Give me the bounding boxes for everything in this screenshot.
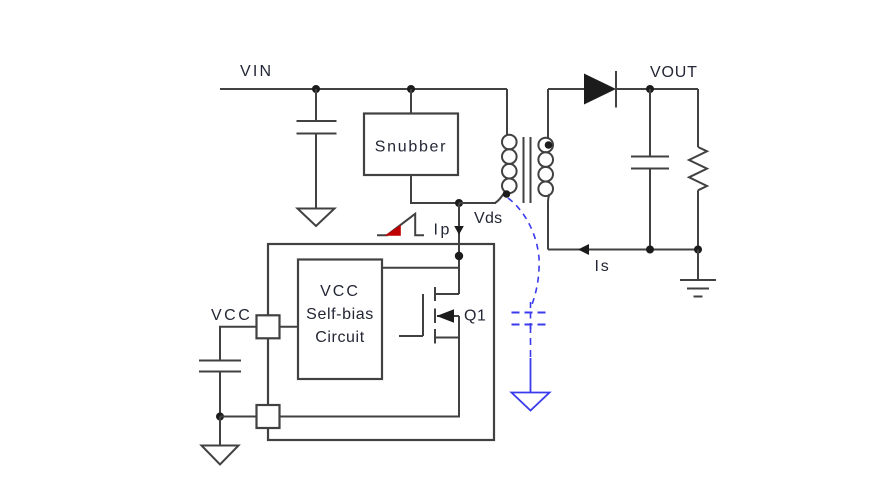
Is current arrow [578,244,589,255]
wire secondary bottom rail [548,249,698,251]
svg-text:VIN: VIN [240,63,273,80]
wire snubber bottom [411,175,459,203]
wire vout right corner to resistor [697,89,699,147]
junction dot drain node top [455,199,463,207]
wire source down and to pin2 [280,316,460,417]
transformer secondary bottom exit [548,194,550,250]
IC outer box [268,244,494,440]
svg-text:VCC: VCC [320,283,360,300]
transformer primary bottom exit curve [459,192,506,204]
parasitic cap dashed lead [530,326,532,358]
earth ground output [680,280,716,297]
svg-text:Q1: Q1 [464,308,486,325]
wire dot to pin2 [220,416,257,418]
primary phase dot [503,190,511,198]
wire to ground vcc [219,417,221,446]
resistor Rload [689,147,707,190]
wire output cap bottom [649,169,651,250]
wire to primary bottom [459,202,496,204]
parasitic cap dashed plates [512,313,550,325]
wire resistor bottom [697,190,699,249]
svg-text:VOUT: VOUT [650,64,698,81]
junction dot at snubber [407,85,415,93]
wire inner box to drain [382,267,459,269]
junction dot vcc gnd [216,413,224,421]
diode D1 cathode bar [615,71,617,108]
wire pin1 to cap [220,327,257,360]
wire VIN top rail [220,88,507,90]
mosfet Q1 source stub [435,337,459,339]
capacitor VCC [199,361,241,372]
parasitic cap dashed center lead [530,302,532,330]
svg-text:Snubber: Snubber [375,139,447,156]
transformer secondary winding lead [547,89,549,138]
wire snubber drop [410,89,412,114]
mosfet Q1 gate bar [422,294,424,336]
ramp red fill [385,225,401,236]
capacitor C1 input [297,121,337,134]
mosfet Q1 body arrow [437,309,455,322]
svg-text:Self-bias: Self-bias [306,306,374,323]
ground input [298,209,335,227]
junction dot cap bottom [646,246,654,254]
ramp waveform icon [377,214,424,235]
transformer secondary winding loops [538,138,553,196]
wire pin1 to inner box [280,326,299,328]
svg-text:Is: Is [595,258,611,275]
svg-text:Circuit: Circuit [315,329,365,346]
mosfet Q1 channel dashes [434,287,436,344]
mosfet Q1 drain stub [435,293,459,295]
junction dot resistor bottom [694,246,702,254]
wire vcc cap bottom [219,372,221,417]
svg-text:Vds: Vds [474,210,502,227]
mosfet Q1 body line [437,315,459,317]
secondary phase dot [545,141,553,149]
Ip current arrow [454,226,464,235]
wire input cap branch [315,89,317,120]
mosfet Q1 gate lead [399,335,423,337]
pin square VCC [257,315,280,338]
svg-text:Ip: Ip [434,222,452,239]
ground vcc [202,446,239,465]
parasitic solid lead [530,358,532,393]
diode D1 triangle [584,74,616,105]
wire cap to ground [315,134,317,208]
junction dot drain inside IC [455,252,463,260]
transformer primary winding lead [506,89,508,136]
capacitor Cout [631,157,669,169]
wire diode to vout corner [616,88,698,90]
VCC self-bias inner box [298,260,382,380]
parasitic capacitance dashed curve [508,198,539,306]
junction dot at input cap [312,85,320,93]
transformer primary winding loops [502,135,517,193]
svg-text:VCC: VCC [211,307,252,324]
wire secondary top to diode [548,88,584,90]
snubber box [364,114,458,176]
wire vout to output cap [649,89,651,156]
junction dot VOUT [646,85,654,93]
parasitic blue ground [512,393,550,411]
wire drain vertical [458,203,460,294]
pin square GND [257,405,280,428]
wire to earth ground [697,250,699,281]
transformer core lines [524,137,531,203]
